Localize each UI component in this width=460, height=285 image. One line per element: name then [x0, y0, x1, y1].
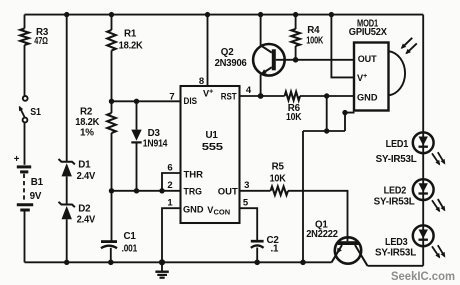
wire battery to bottom rail — [24, 210, 26, 262]
node junction R4 on top rail — [293, 12, 298, 17]
svg-text:10K: 10K — [270, 173, 286, 184]
node junction gnd step — [324, 128, 329, 133]
node junction V+ wire on top rail — [329, 12, 334, 17]
svg-text:OUT: OUT — [358, 54, 377, 64]
svg-text:TRG: TRG — [184, 187, 203, 197]
svg-text:B1: B1 — [31, 177, 44, 188]
svg-text:Q2: Q2 — [221, 47, 234, 58]
svg-text:+: + — [14, 154, 20, 165]
capacitor C1 .001 — [101, 242, 117, 249]
svg-text:100K: 100K — [306, 35, 323, 46]
svg-text:SeekIC.com: SeekIC.com — [391, 271, 455, 283]
node junction pin8 on top rail — [205, 12, 210, 17]
wire gnd step up to module corner — [345, 113, 355, 131]
svg-text:LED1: LED1 — [386, 139, 409, 150]
svg-text:R4: R4 — [307, 25, 320, 36]
pin name GND (module) — [357, 93, 378, 103]
pin name V+ — [203, 89, 213, 99]
label LED1 SY-IR53L — [376, 139, 417, 165]
svg-text:2: 2 — [167, 180, 172, 191]
node junction gnd branch on GND line — [324, 93, 329, 98]
transistor Q2 2N3906 — [253, 15, 285, 96]
watermark SeekIC.com — [391, 271, 455, 283]
label D1 2.4V — [77, 160, 96, 182]
label R3 value 47 ohm — [34, 27, 49, 47]
ground symbol — [155, 262, 168, 277]
LED LED1 SY-IR53L — [413, 132, 434, 153]
emission arrows LED1 — [432, 152, 445, 165]
svg-text:D2: D2 — [78, 204, 91, 215]
svg-text:2N2222: 2N2222 — [306, 229, 338, 240]
svg-text:R1: R1 — [124, 29, 137, 40]
wire C1 to bottom rail — [110, 248, 112, 262]
node junction Q2 collector on RST line — [258, 93, 264, 99]
svg-text:D1: D1 — [78, 160, 91, 171]
wire OUT pin 3 to R5 — [240, 190, 271, 192]
label B1 9V — [30, 177, 44, 202]
wire module ground down to bottom rail — [302, 131, 304, 262]
wire left branch top (rail to R3) — [24, 15, 26, 29]
switch S1 — [19, 96, 28, 122]
node junction THR/TRG — [159, 188, 164, 193]
wire RST pin 4 to R6 — [240, 95, 285, 97]
node junction D3 top — [134, 99, 139, 104]
svg-text:1N914: 1N914 — [143, 138, 168, 149]
wire Q2 base to MOD1 OUT — [276, 59, 354, 61]
svg-text:5: 5 — [243, 198, 249, 209]
resistor R5 — [271, 187, 289, 196]
svg-text:7: 7 — [169, 92, 174, 103]
svg-text:1%: 1% — [80, 128, 94, 139]
svg-text:LED2: LED2 — [384, 185, 407, 196]
label D2 2.4V — [77, 204, 96, 226]
emission arrows LED3 — [432, 245, 445, 258]
svg-text:2.4V: 2.4V — [77, 214, 96, 225]
module MOD1 GP1U52X box — [354, 43, 389, 111]
diode D3 1N914 — [131, 130, 141, 143]
node junction R4 bottom — [293, 57, 299, 63]
svg-text:2N3906: 2N3906 — [215, 58, 248, 69]
pin name RST — [221, 92, 237, 102]
svg-text:LED3: LED3 — [385, 237, 408, 248]
wire R6 to MOD1 GND — [300, 95, 354, 97]
label R5 10K — [270, 162, 286, 185]
svg-text:.1: .1 — [271, 244, 280, 255]
node junction gnd on bottom rail — [159, 259, 165, 265]
pin name GND — [183, 204, 204, 214]
pin name VCON — [207, 205, 230, 217]
node junction C2 on bottom rail — [254, 260, 260, 266]
wire D3 bottom — [136, 142, 138, 190]
node junction D1 branch on top rail — [64, 12, 69, 17]
op-amp U1 555 timer box — [181, 86, 240, 223]
wire top V+ rail — [25, 14, 424, 16]
wire LED chain from top rail — [422, 15, 424, 266]
svg-text:3: 3 — [244, 180, 249, 191]
svg-text:SY-IR53L: SY-IR53L — [376, 154, 417, 165]
svg-text:GND: GND — [183, 204, 204, 214]
svg-text:9V: 9V — [30, 191, 42, 202]
pin number 6 — [167, 163, 172, 174]
wire D1 to D2 — [66, 176, 68, 204]
pin name THR — [184, 169, 204, 179]
node junction module corner — [342, 110, 347, 115]
label S1 — [30, 107, 41, 118]
wire S1 to battery — [24, 122, 26, 164]
wire R4 to base line — [295, 46, 297, 60]
resistor R3 — [20, 29, 29, 46]
wire R5 to Q1 base — [288, 191, 348, 241]
node junction C1 on bottom rail — [108, 260, 114, 266]
LED LED2 SY-IR53L — [413, 179, 434, 200]
wire VCON pin 5 to C2 — [240, 208, 258, 241]
resistor R1 — [107, 30, 116, 51]
svg-text:47Ω: 47Ω — [34, 36, 48, 47]
svg-text:10K: 10K — [286, 112, 301, 123]
emission arrows LED2 — [432, 199, 445, 212]
svg-text:4: 4 — [246, 85, 252, 96]
wire gnd step horizontal — [303, 130, 345, 132]
node junction R2 bottom — [109, 188, 114, 193]
pin name DIS — [184, 96, 198, 106]
capacitor C2 .1 — [251, 241, 264, 248]
label Q1 2N2222 — [306, 220, 338, 240]
wire GND pin 1 — [162, 208, 181, 262]
label R1 18.2K — [119, 29, 143, 52]
svg-text:6: 6 — [167, 163, 172, 174]
resistor R2 — [107, 113, 116, 133]
wire pin 8 — [207, 15, 209, 86]
pin name OUT (module) — [358, 54, 377, 64]
svg-text:.001: .001 — [122, 244, 138, 255]
svg-text:8: 8 — [199, 76, 204, 87]
pin name OUT — [218, 187, 238, 197]
pin number 3 — [244, 180, 249, 191]
wire bottom ground rail — [25, 261, 332, 263]
label R6 10K — [286, 103, 301, 123]
svg-text:R5: R5 — [272, 162, 285, 173]
LED LED3 SY-IR53L — [413, 225, 434, 246]
wire DIS pin 7 line — [112, 100, 181, 102]
svg-text:D3: D3 — [148, 128, 161, 139]
svg-text:18.2K: 18.2K — [119, 40, 143, 51]
wire gnd junction down — [326, 96, 328, 131]
label C2 .1 — [267, 235, 280, 254]
incoming light arrows — [401, 38, 417, 55]
node junction R1 on top rail — [109, 12, 114, 17]
label Q2 2N3906 — [215, 47, 248, 69]
svg-text:555: 555 — [202, 142, 224, 153]
label C1 .001 — [122, 231, 138, 254]
svg-text:S1: S1 — [30, 107, 41, 118]
svg-text:THR: THR — [184, 169, 204, 179]
resistor R6 — [285, 92, 300, 101]
pin number 8 — [199, 76, 204, 87]
label R4 100K — [306, 25, 323, 47]
pin name TRG — [184, 187, 203, 197]
pin number 1 — [167, 198, 173, 209]
wire TRG pin 2 line — [112, 190, 181, 192]
label LED2 SY-IR53L — [374, 185, 415, 207]
svg-text:GND: GND — [357, 93, 378, 103]
pin number 2 — [167, 180, 172, 191]
wire C2 to bottom rail — [256, 248, 258, 263]
node junction Q2 emitter on top rail — [258, 12, 263, 17]
wire rail to R1 — [111, 15, 113, 30]
resistor R4 — [291, 29, 300, 46]
label MOD1 GPIU52X — [349, 18, 388, 38]
label R2 18.2K 1% — [75, 107, 99, 139]
battery B1 9V — [14, 154, 33, 210]
wire C1 branch — [111, 191, 113, 242]
wire R2 to TRG line — [111, 133, 113, 191]
svg-text:GPIU52X: GPIU52X — [349, 27, 388, 38]
wire rail to R4 — [295, 15, 297, 29]
wire THR pin 6 step — [162, 173, 181, 191]
pin name V+ (module) — [357, 73, 367, 83]
wire rail to D1 — [66, 15, 68, 162]
svg-text:U1: U1 — [206, 130, 219, 141]
node junction R1/R2/DIS — [109, 99, 114, 104]
node junction on bottom rail — [300, 260, 306, 266]
zener diode D1 2.4V — [59, 159, 75, 176]
node junction D3 bottom — [134, 188, 139, 193]
svg-text:DIS: DIS — [184, 96, 198, 106]
module lens — [389, 51, 406, 95]
svg-text:RST: RST — [221, 92, 237, 102]
svg-text:2.4V: 2.4V — [77, 171, 96, 182]
pin number 7 — [169, 92, 174, 103]
svg-text:SY-IR53L: SY-IR53L — [374, 197, 415, 208]
node junction D2 on bottom rail — [64, 260, 69, 265]
pin number 4 — [246, 85, 252, 96]
svg-text:1: 1 — [167, 198, 173, 209]
label LED3 SY-IR53L — [375, 237, 416, 259]
label D3 1N914 — [143, 128, 168, 149]
pin number 5 — [243, 198, 249, 209]
label U1 555 — [202, 130, 224, 153]
wire D3 top — [136, 101, 138, 129]
svg-text:C1: C1 — [124, 231, 137, 242]
svg-text:OUT: OUT — [218, 187, 238, 197]
wire D2 to bottom rail — [66, 219, 68, 262]
wire R1 to R2 — [111, 51, 113, 114]
transistor Q1 2N2222 — [332, 237, 368, 265]
svg-text:SY-IR53L: SY-IR53L — [375, 248, 416, 259]
wire rail to MOD1 V+ — [331, 15, 354, 78]
zener diode D2 2.4V — [59, 202, 75, 219]
wire R3 to S1 — [24, 45, 26, 96]
svg-text:18.2K: 18.2K — [75, 117, 99, 128]
wire Q1 collector to LED chain — [368, 265, 424, 267]
